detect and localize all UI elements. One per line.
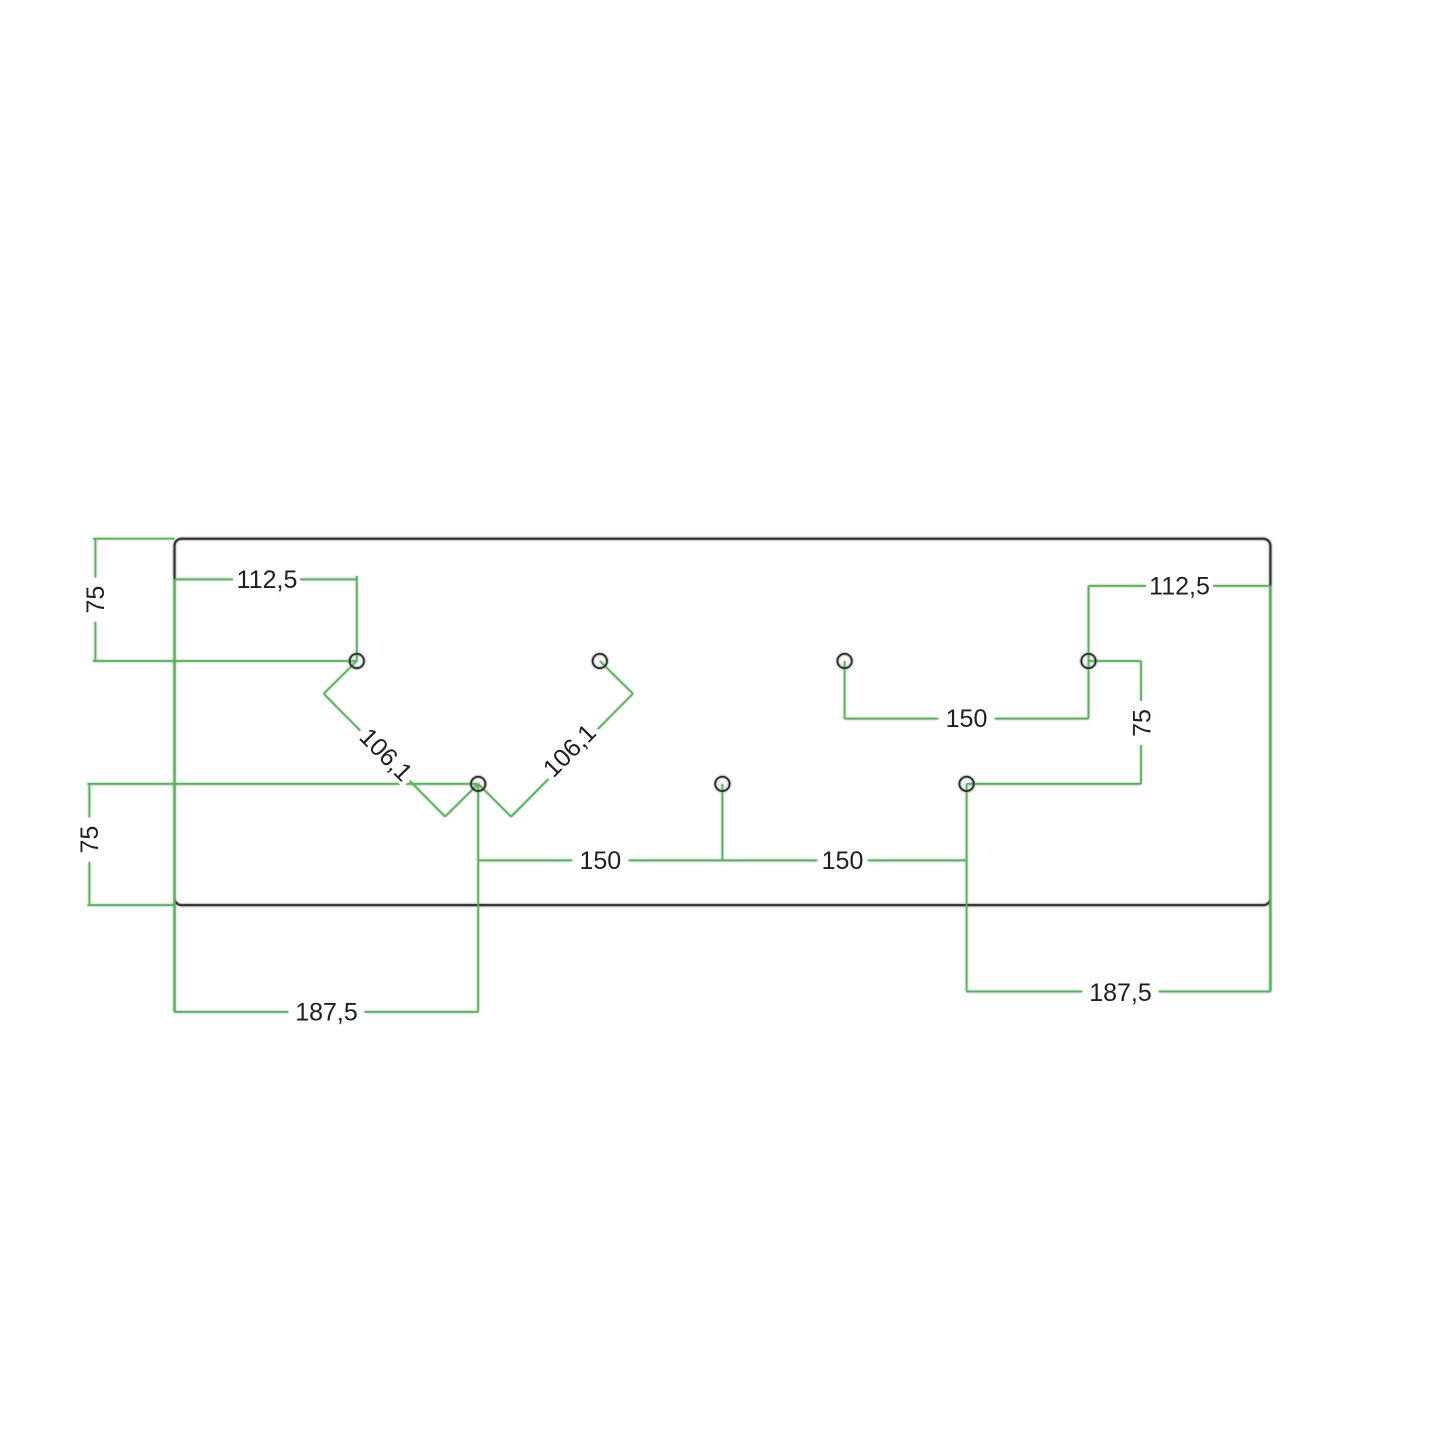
- soft halo underlay: [76, 539, 1271, 1027]
- crisp artwork layer: [76, 539, 1271, 1027]
